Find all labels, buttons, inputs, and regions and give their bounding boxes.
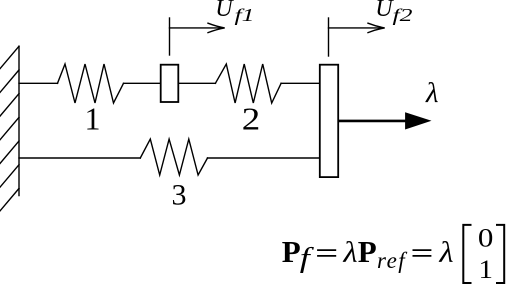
svg-text:3: 3 bbox=[172, 179, 187, 212]
wire block to spring 2 bbox=[179, 82, 216, 84]
svg-text:1: 1 bbox=[479, 254, 494, 284]
svg-text:λ: λ bbox=[438, 236, 453, 269]
wire wall to spring 1 bbox=[19, 82, 58, 84]
wall bbox=[18, 46, 20, 195]
matrix left bracket bbox=[463, 225, 471, 283]
load arrow lambda bbox=[339, 112, 432, 129]
svg-text:ref: ref bbox=[377, 248, 408, 273]
wire spring 3 to bar bbox=[208, 157, 320, 159]
rigid bar bbox=[320, 65, 338, 177]
wire wall to spring 3 bbox=[19, 157, 140, 159]
svg-text:U: U bbox=[215, 0, 234, 22]
tick node U_f2 bbox=[328, 18, 330, 56]
svg-text:2: 2 bbox=[242, 101, 261, 137]
svg-text:P: P bbox=[358, 234, 377, 269]
equation P_f = lambda P_ref = lambda [0;1] bbox=[282, 234, 454, 274]
arrow U_f1 bbox=[170, 23, 225, 32]
arrow U_f2 bbox=[329, 23, 385, 32]
svg-text:0: 0 bbox=[478, 223, 494, 253]
svg-text:U: U bbox=[375, 0, 394, 22]
spring 2 bbox=[215, 64, 281, 103]
block node between springs 1 and 2 bbox=[161, 65, 179, 102]
svg-text:1: 1 bbox=[85, 101, 101, 137]
wall hatching bbox=[0, 46, 19, 211]
wire spring 1 to block bbox=[124, 82, 161, 84]
matrix right bracket bbox=[496, 225, 504, 283]
spring 1 bbox=[58, 64, 124, 103]
wire spring 2 to bar bbox=[281, 82, 319, 84]
svg-text:λ: λ bbox=[425, 78, 439, 109]
svg-text:f2: f2 bbox=[393, 5, 413, 25]
svg-text:f1: f1 bbox=[235, 5, 255, 25]
tick node U_f1 bbox=[169, 18, 171, 55]
svg-text:P: P bbox=[282, 234, 301, 269]
spring 3 bbox=[140, 139, 207, 175]
svg-text:λ: λ bbox=[342, 236, 357, 269]
svg-text:f: f bbox=[300, 242, 315, 274]
